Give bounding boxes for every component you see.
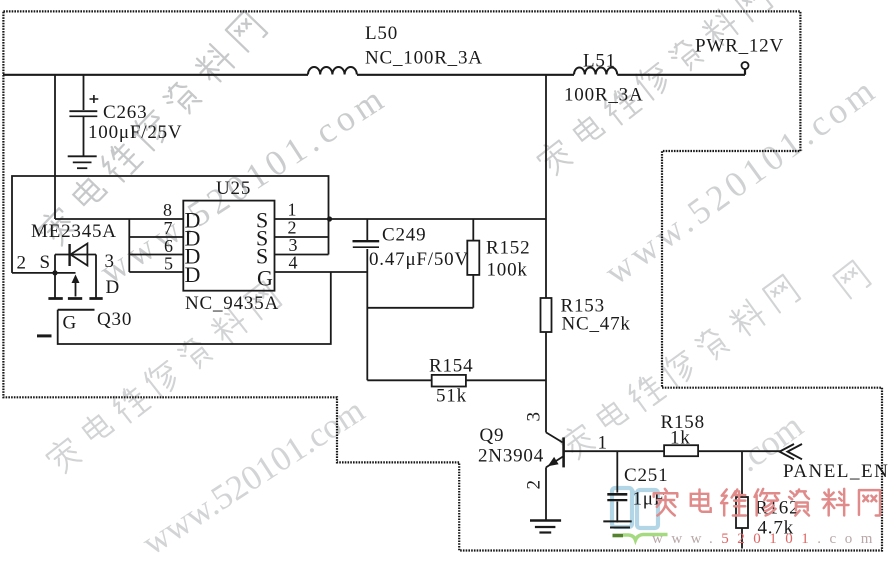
wire base row	[564, 450, 780, 452]
svg-text:PWR_12V: PWR_12V	[695, 36, 784, 57]
svg-text:51k: 51k	[436, 386, 467, 407]
inductor L50	[308, 67, 357, 75]
wire rail mid	[357, 74, 574, 76]
svg-text:D: D	[106, 277, 121, 298]
svg-text:100k: 100k	[487, 260, 528, 281]
transistor Q9	[546, 432, 563, 442]
wire gate net of Q30	[58, 272, 331, 344]
watermark gray diagonal band group	[35, 0, 871, 476]
svg-text:U25: U25	[216, 178, 251, 199]
wire pin6	[129, 254, 183, 256]
capacitor C251	[607, 493, 627, 496]
wire C263 branch	[83, 75, 85, 157]
resistor R152	[467, 241, 479, 275]
svg-text:NC_47k: NC_47k	[562, 314, 631, 335]
wire rail drop right	[545, 75, 547, 299]
wire pin3	[275, 254, 329, 256]
wire pin1 net to rail drop	[275, 218, 547, 220]
resistor R153	[541, 298, 552, 332]
pin 1 dash of Q30	[37, 334, 52, 337]
svg-text:PANEL_EN: PANEL_EN	[783, 461, 888, 482]
svg-text:Q9: Q9	[480, 425, 505, 446]
U25 pin letters D D D D / S S S G	[185, 208, 274, 291]
svg-text:NC_9435A: NC_9435A	[185, 293, 279, 314]
wire pin2	[275, 236, 329, 238]
svg-text:0.47μF/50V: 0.47μF/50V	[369, 249, 469, 270]
svg-text:1: 1	[598, 433, 608, 454]
svg-text:ME2345A: ME2345A	[31, 221, 117, 242]
svg-text:2: 2	[524, 479, 545, 489]
capacitor C249	[366, 219, 368, 380]
svg-text:S: S	[40, 252, 51, 273]
capacitor C263	[69, 110, 97, 112]
resistor R162	[736, 497, 748, 528]
green swoosh	[613, 534, 624, 538]
wire pin7	[129, 236, 183, 238]
svg-text:4: 4	[289, 253, 299, 273]
wire pin5	[129, 271, 183, 273]
ground (Q9)	[530, 519, 561, 521]
svg-text:8: 8	[163, 200, 173, 220]
svg-text:100μF/25V: 100μF/25V	[88, 122, 182, 143]
svg-text:G: G	[63, 313, 78, 334]
svg-text:L51: L51	[583, 51, 616, 72]
resistor R158	[664, 445, 698, 456]
svg-text:NC_100R_3A: NC_100R_3A	[365, 48, 483, 69]
svg-text:R154: R154	[429, 356, 473, 377]
svg-text:www.520101.com: www.520101.com	[652, 531, 881, 547]
U25 pin numbers 8 7 6 5 / 1 2 3 4	[163, 200, 298, 274]
wire rail right	[617, 69, 745, 75]
svg-text:3: 3	[524, 411, 545, 421]
svg-text:3: 3	[105, 251, 115, 272]
svg-text:C249: C249	[382, 225, 426, 246]
svg-text:2N3904: 2N3904	[478, 446, 544, 467]
wire top rail left	[3, 74, 308, 76]
svg-text:100R_3A: 100R_3A	[564, 85, 644, 106]
net connector PANEL_EN chevrons	[780, 444, 803, 459]
terminal PWR_12V	[742, 62, 749, 69]
wire S feed to Q30	[12, 272, 55, 274]
logo book (teal)	[612, 488, 668, 540]
wire left pin bus	[128, 219, 130, 272]
wire R154 row	[367, 379, 546, 381]
wire solid box around Q30/U25	[12, 176, 329, 273]
gate plate Q30	[58, 309, 95, 311]
red watermark	[654, 489, 880, 516]
wire rail drop to U25 pin8	[54, 75, 56, 220]
svg-text:R152: R152	[486, 238, 530, 259]
wire pin8	[55, 218, 183, 220]
wire R162 branch	[741, 451, 743, 548]
svg-text:C263: C263	[103, 102, 147, 123]
wire C251 branch	[616, 451, 618, 522]
ground (C263)	[68, 155, 97, 157]
inductor L51	[574, 68, 617, 75]
ground (C251)	[603, 520, 631, 522]
wire pin4 to C249	[275, 271, 368, 273]
svg-text:G: G	[257, 266, 273, 291]
svg-text:L50: L50	[365, 23, 398, 44]
svg-text:2: 2	[17, 253, 27, 274]
svg-text:1k: 1k	[670, 428, 691, 449]
svg-text:Q30: Q30	[97, 309, 132, 330]
svg-text:D: D	[185, 262, 201, 287]
svg-text:5: 5	[164, 254, 174, 274]
U25 chip body	[183, 201, 274, 291]
wire R152 branch	[367, 219, 473, 308]
resistor R154	[432, 375, 466, 387]
node pin1 junction dot	[327, 216, 332, 221]
svg-text:7: 7	[164, 218, 174, 238]
svg-text:1: 1	[288, 200, 298, 220]
node S junction dot	[52, 270, 57, 275]
svg-text:www.520101.com: www.520101.com	[135, 390, 371, 561]
svg-text:C251: C251	[624, 465, 668, 486]
wire emitter	[545, 467, 547, 519]
wire R153 to Q9	[545, 332, 547, 432]
transistor Q30 MOSFET	[55, 255, 96, 298]
